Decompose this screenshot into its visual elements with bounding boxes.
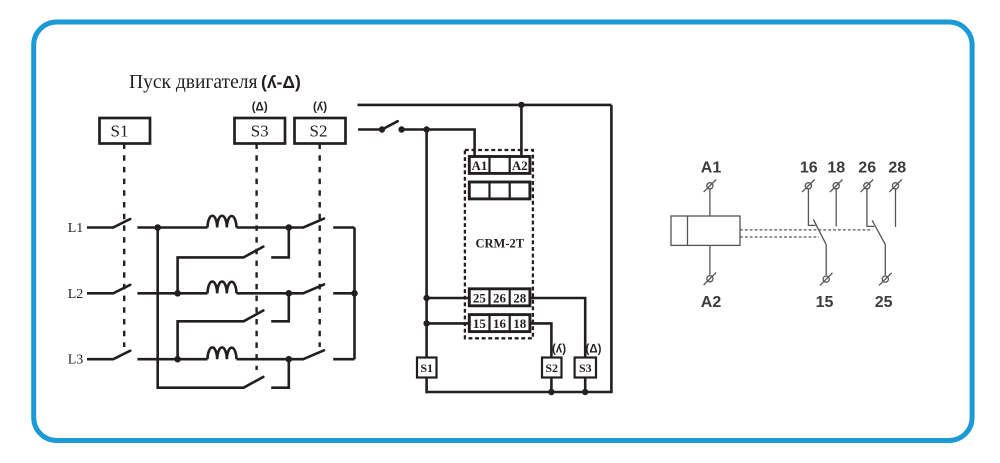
svg-text:26: 26 — [858, 160, 876, 177]
svg-text:18: 18 — [827, 160, 845, 177]
delta contact blade row C — [244, 377, 264, 388]
star point bus — [353, 228, 356, 360]
terminal row frame A1/A2 — [469, 157, 530, 174]
aux contact left point — [379, 126, 385, 132]
wire L1 to star contact — [237, 226, 304, 229]
svg-text:(ʎ-Δ): (ʎ-Δ) — [261, 72, 301, 92]
linkage dashed lower — [740, 236, 819, 238]
contact blade 15-16 — [813, 219, 826, 244]
aux contact blade — [382, 121, 398, 129]
junction L3-delta B — [174, 356, 181, 363]
terminal circle 18 — [830, 180, 843, 193]
wire L3 to star bus — [333, 358, 354, 361]
svg-text:A1: A1 — [471, 158, 487, 173]
terminal circle 15 — [820, 273, 833, 286]
main contact blade L2 — [113, 285, 130, 294]
junction S2 bottom — [548, 389, 554, 395]
pushbutton S2 (top) — [295, 118, 346, 144]
star contact blade L2 — [303, 284, 324, 293]
delta row B right link to L2 — [271, 293, 289, 321]
wire L2 to winding — [137, 292, 207, 295]
delta row B wire (L3 up) — [178, 321, 244, 359]
svg-text:(ʎ): (ʎ) — [552, 344, 566, 356]
main contact blade L3 — [113, 351, 130, 360]
control wire to A1 — [402, 130, 475, 157]
terminal row frame 15/16/18 — [469, 315, 530, 332]
wire 28 — [895, 189, 897, 227]
terminal circle 26 — [861, 180, 874, 193]
terminal row frame 25/26/28 — [469, 289, 530, 306]
wire blade to 25 — [884, 245, 886, 276]
dashed link line from S1 — [123, 144, 125, 348]
svg-text:A1: A1 — [701, 160, 722, 177]
svg-text:(Δ): (Δ) — [586, 344, 602, 356]
wire L2 to star contact — [237, 292, 304, 295]
delta contact blade row A — [244, 247, 264, 258]
svg-text:16: 16 — [800, 160, 818, 177]
delta row A wire (L2 up) — [178, 257, 244, 293]
terminal row frame blank — [469, 182, 530, 199]
wire L3 left — [87, 358, 113, 361]
pushbutton S1 (top) — [100, 118, 151, 144]
junction bus 15 — [423, 320, 429, 326]
junction L1-delta A — [286, 224, 293, 231]
junction top wire A2 — [518, 102, 524, 108]
wire L2 to star bus — [333, 292, 354, 295]
wire 16 — [808, 189, 815, 225]
stub S3 to bottom wire — [584, 378, 587, 394]
right control bus — [610, 105, 613, 393]
winding (inductor) L1 — [208, 216, 237, 228]
svg-text:A2: A2 — [701, 294, 722, 311]
svg-text:(ʎ): (ʎ) — [313, 102, 327, 114]
left bus L1 to delta row C — [158, 228, 244, 388]
wire L1 left — [87, 226, 113, 229]
svg-text:L2: L2 — [68, 287, 84, 302]
wire L2 left — [87, 292, 113, 295]
svg-text:S1: S1 — [111, 122, 129, 141]
star contact blade L3 — [303, 350, 324, 359]
stub S2 to bottom wire — [550, 378, 553, 394]
CRM-2T dashed outline — [465, 150, 533, 338]
pushbutton S3 (top) — [235, 118, 286, 144]
terminal circle 25 — [879, 273, 892, 286]
delta row A right link to L1 — [271, 228, 289, 258]
terminal circle 28 — [889, 180, 902, 193]
winding (inductor) L2 — [208, 282, 237, 294]
wire A2 drop — [520, 105, 523, 157]
wire L3 to star contact — [237, 358, 304, 361]
linkage dashed upper — [740, 229, 873, 231]
svg-text:Пуск двигателя: Пуск двигателя — [129, 72, 257, 93]
terminal circle A2 — [704, 272, 717, 285]
svg-text:L1: L1 — [68, 221, 84, 236]
delta row C right link to L3 — [271, 359, 289, 388]
wire L1 to winding — [137, 226, 207, 229]
svg-text:28: 28 — [888, 160, 906, 177]
aux contact right point — [398, 126, 404, 132]
wire L3 to winding — [137, 358, 207, 361]
svg-text:S3: S3 — [251, 122, 269, 141]
svg-text:16: 16 — [493, 316, 507, 331]
junction L3-delta C — [286, 356, 293, 363]
wire 26 — [867, 189, 874, 226]
stub S1 to bottom wire — [425, 378, 428, 394]
dashed link line from S2 — [319, 144, 321, 348]
junction L2-star bus — [351, 290, 358, 297]
coil box — [671, 216, 740, 245]
svg-text:15: 15 — [816, 294, 834, 311]
junction bus 25 — [423, 295, 429, 301]
svg-text:18: 18 — [513, 316, 527, 331]
svg-text:A2: A2 — [512, 158, 528, 173]
control wire from S2 — [358, 128, 382, 131]
junction L1-left bus — [154, 224, 161, 231]
svg-text:S3: S3 — [579, 361, 592, 375]
pushbutton S2 (bottom) — [542, 358, 562, 378]
junction S3 bottom — [582, 389, 588, 395]
svg-text:S2: S2 — [310, 122, 328, 141]
svg-text:S1: S1 — [420, 361, 433, 375]
terminal circle 16 — [802, 180, 815, 193]
svg-text:28: 28 — [513, 290, 527, 305]
wire terminal 28 to S3 — [530, 298, 586, 359]
junction L2-delta B — [286, 290, 293, 297]
terminal circle A1 — [704, 180, 717, 193]
main contact blade L1 — [113, 219, 130, 228]
top supply wire — [358, 104, 612, 107]
svg-text:25: 25 — [473, 290, 487, 305]
junction L2-delta A — [174, 290, 181, 297]
pushbutton S1 (bottom) — [417, 358, 437, 378]
dashed link line from S3 — [255, 144, 257, 371]
left control bus down to S1 — [425, 130, 428, 359]
bottom control wire — [427, 391, 612, 394]
pushbutton S3 (bottom) — [575, 358, 596, 378]
svg-text:15: 15 — [473, 316, 487, 331]
wire coil to A2 — [709, 245, 711, 274]
svg-text:26: 26 — [493, 290, 507, 305]
wire bus to terminal 25 — [427, 297, 470, 300]
wire L1 to star bus — [333, 226, 354, 229]
junction control bus — [423, 126, 429, 132]
contact blade 25-26 — [872, 220, 885, 244]
svg-text:CRM-2T: CRM-2T — [475, 237, 524, 251]
wire blade to 15 — [825, 245, 827, 276]
svg-text:L3: L3 — [68, 353, 84, 368]
winding (inductor) L3 — [208, 347, 237, 359]
star contact blade L1 — [303, 219, 324, 228]
wire 18 — [835, 189, 837, 226]
wire terminal 18 to S2 — [530, 323, 552, 358]
wire A1 to coil — [709, 189, 711, 216]
svg-text:(Δ): (Δ) — [252, 102, 268, 114]
wire bus to terminal 15 — [427, 322, 470, 325]
svg-text:S2: S2 — [545, 361, 558, 375]
svg-text:25: 25 — [875, 294, 893, 311]
delta contact blade row B — [244, 311, 264, 322]
